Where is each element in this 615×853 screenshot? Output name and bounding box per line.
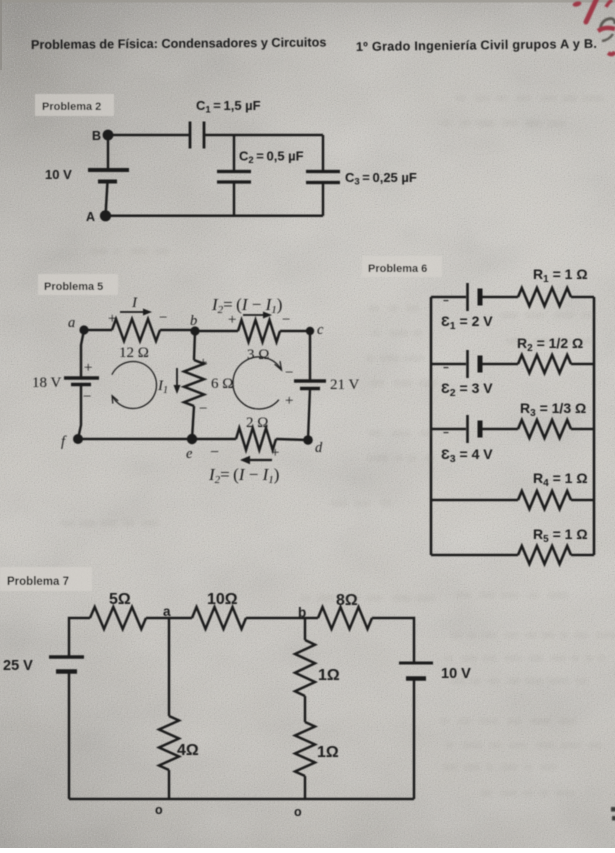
resistor 12ohm xyxy=(112,319,160,341)
wire a branch lower xyxy=(168,770,171,799)
gray curl doodle right edge xyxy=(598,19,615,55)
current I2 bottom arrow xyxy=(246,459,272,461)
battery emf1 xyxy=(466,283,469,311)
battery 10V wire upper xyxy=(107,135,110,170)
svg-text:5Ω: 5Ω xyxy=(109,591,131,608)
wire top left B to C1 xyxy=(108,134,189,137)
svg-text:c: c xyxy=(317,322,324,338)
node d xyxy=(303,435,313,445)
capacitor C2 xyxy=(217,170,251,173)
svg-text:+: + xyxy=(199,355,207,371)
wire 3ohm to c xyxy=(280,330,310,332)
wire bottom A to corner xyxy=(106,215,324,218)
svg-text:10Ω: 10Ω xyxy=(207,591,238,608)
svg-text:+: + xyxy=(271,445,279,461)
svg-text:Problema 5: Problema 5 xyxy=(44,281,103,293)
svg-text:a: a xyxy=(68,315,75,331)
node e xyxy=(187,434,197,444)
resistor R2 xyxy=(518,355,571,373)
resistor 1ohm lower xyxy=(295,722,315,776)
svg-text:−: − xyxy=(443,363,449,374)
wire b to 3ohm xyxy=(195,330,238,332)
node f xyxy=(73,434,83,444)
wire a down left xyxy=(81,330,84,377)
resistor 8ohm xyxy=(318,607,372,629)
svg-text:o: o xyxy=(294,805,302,819)
node b xyxy=(190,326,199,335)
Problema 7 label xyxy=(0,567,92,591)
svg-text:4Ω: 4Ω xyxy=(177,742,199,759)
node A xyxy=(100,210,111,221)
resistor R3 xyxy=(518,420,571,438)
wire battery 10V down xyxy=(413,679,416,800)
svg-text:−: − xyxy=(210,444,219,461)
wire battery 25V down xyxy=(68,671,71,799)
wire battery to resistor R3 xyxy=(480,428,518,431)
wire bottom rail xyxy=(69,798,414,801)
wire battery to d xyxy=(308,389,310,441)
wire battery to resistor R1 xyxy=(480,296,518,299)
node c xyxy=(306,327,314,335)
svg-text:A: A xyxy=(86,210,95,224)
wire b branch upper xyxy=(304,618,307,640)
wire 5ohm to a xyxy=(146,617,192,620)
resistor 3ohm xyxy=(238,320,280,342)
svg-text:−: − xyxy=(199,401,207,417)
battery emf3 xyxy=(466,415,469,443)
resistor R4 xyxy=(518,491,571,509)
svg-text:o: o xyxy=(155,803,163,817)
svg-text:6 Ω: 6 Ω xyxy=(211,376,233,392)
wire c down xyxy=(309,331,311,381)
svg-text:d: d xyxy=(315,440,323,456)
svg-text:b: b xyxy=(298,605,306,620)
resistor 1ohm upper xyxy=(295,640,315,696)
wire top a-b xyxy=(84,329,112,331)
wire b branch lower xyxy=(304,776,307,799)
resistor 10ohm xyxy=(192,607,246,629)
svg-text:−: − xyxy=(285,365,293,381)
svg-text:−: − xyxy=(159,310,167,326)
svg-text:Problemas de Física: Condensad: Problemas de Física: Condensadores y Cir… xyxy=(31,35,327,52)
red pen mark top-right xyxy=(572,0,612,22)
resistor R4 row wire left xyxy=(431,499,518,502)
resistor 5ohm xyxy=(90,607,146,629)
svg-text:−: − xyxy=(443,428,449,439)
battery 25V xyxy=(49,655,84,658)
resistor 2ohm xyxy=(236,428,276,450)
wire a branch upper xyxy=(168,618,171,716)
svg-text:B: B xyxy=(92,129,101,143)
wire C3 branch lower xyxy=(322,183,325,216)
wire 12ohm to b xyxy=(160,329,195,331)
svg-text:1Ω: 1Ω xyxy=(318,667,340,684)
resistor R2 row wire left xyxy=(431,363,466,366)
capacitor C3 xyxy=(306,170,340,173)
svg-text:+: + xyxy=(285,393,293,409)
resistor R1 xyxy=(518,288,571,306)
wire battery to resistor R2 xyxy=(480,363,518,366)
Problema 5 label xyxy=(38,274,118,295)
svg-text:21 V: 21 V xyxy=(330,377,359,393)
resistor R5 xyxy=(518,546,571,564)
svg-text:+: + xyxy=(84,360,92,376)
battery 10V xyxy=(88,168,129,172)
resistor R5 row wire left xyxy=(431,554,518,557)
svg-text:a: a xyxy=(163,604,171,619)
svg-text:Problema 6: Problema 6 xyxy=(368,263,427,275)
wire 10ohm to b xyxy=(246,617,318,620)
svg-text:−: − xyxy=(83,389,91,405)
wire top left corner xyxy=(69,618,90,657)
svg-text:b: b xyxy=(190,313,197,329)
node B xyxy=(103,130,114,141)
wire C2 branch lower xyxy=(233,182,236,216)
dark marks right edge bottom xyxy=(611,807,615,821)
Problema 6 label xyxy=(362,256,442,277)
wire b branch middle xyxy=(304,696,307,722)
svg-text:25 V: 25 V xyxy=(3,658,33,674)
capacitor C1 xyxy=(189,122,192,149)
wire C3 branch upper xyxy=(322,135,325,172)
wire C2 branch upper xyxy=(233,135,236,172)
wire left rail xyxy=(430,297,433,555)
battery 21V xyxy=(294,379,326,382)
wire e to 2ohm xyxy=(192,438,236,440)
wire b down to 6ohm xyxy=(194,331,195,360)
svg-text:18 V: 18 V xyxy=(32,375,61,391)
resistor R3 row wire left xyxy=(431,428,466,431)
resistor 6ohm xyxy=(184,360,204,406)
svg-text:+: + xyxy=(228,312,236,328)
node a xyxy=(79,325,88,334)
svg-text:2 Ω: 2 Ω xyxy=(246,415,268,431)
svg-text:3 Ω: 3 Ω xyxy=(247,347,269,363)
wire battery to f xyxy=(78,385,81,440)
Problema 2 label xyxy=(35,94,114,116)
wire 6ohm to e xyxy=(192,406,194,439)
resistor R1 row wire left xyxy=(431,296,466,299)
resistor 4ohm xyxy=(159,716,179,770)
wire bottom f-e xyxy=(78,438,192,440)
battery 18V xyxy=(64,376,99,379)
loop arrow right mesh xyxy=(233,357,282,409)
svg-text:1Ω: 1Ω xyxy=(317,744,339,761)
wire 8ohm to right corner xyxy=(372,618,414,663)
battery 10V xyxy=(399,662,433,665)
battery emf2 xyxy=(466,350,469,378)
svg-text:Problema 7: Problema 7 xyxy=(7,576,69,588)
wire top right C1 to corner xyxy=(204,134,323,137)
wire right rail xyxy=(593,297,596,555)
svg-text:−: − xyxy=(443,296,449,307)
svg-text:−: − xyxy=(282,312,290,328)
svg-text:+: + xyxy=(108,311,116,327)
svg-text:Problema 2: Problema 2 xyxy=(42,101,101,113)
svg-text:12 Ω: 12 Ω xyxy=(119,345,149,361)
svg-text:10 V: 10 V xyxy=(45,167,72,182)
battery 10V wire lower xyxy=(106,182,108,217)
wire 2ohm to d xyxy=(276,439,308,440)
svg-text:I: I xyxy=(131,295,138,311)
svg-text:e: e xyxy=(186,446,193,462)
loop arrow left mesh xyxy=(112,361,157,408)
